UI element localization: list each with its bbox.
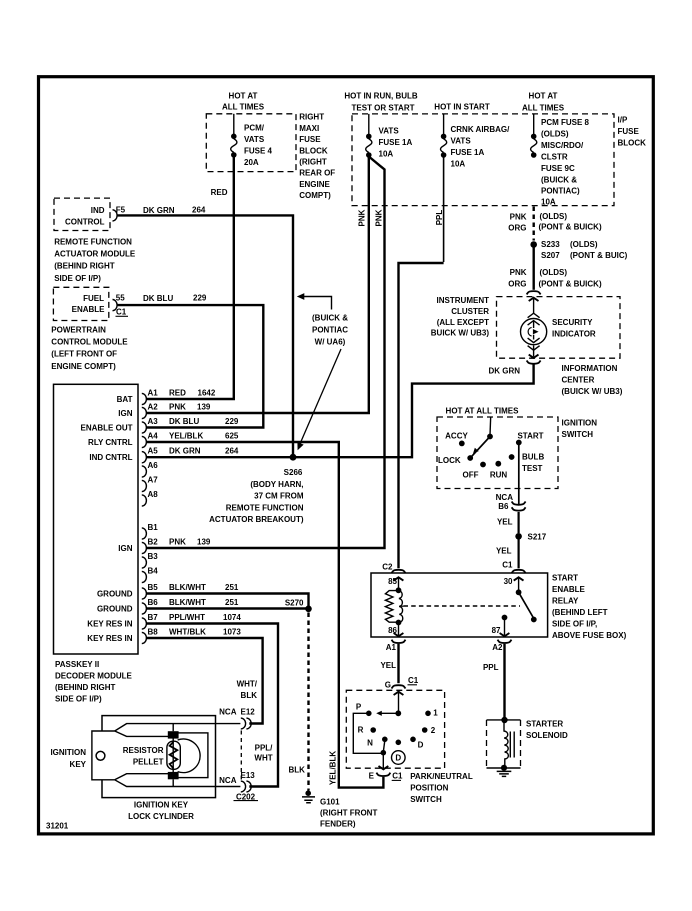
relay contact 87: [502, 615, 508, 621]
svg-text:A7: A7: [148, 476, 159, 485]
svg-text:A4: A4: [148, 432, 159, 441]
svg-text:TEST: TEST: [522, 464, 543, 473]
contact 2: [422, 727, 428, 733]
wire WHT/BLK B8 to E12: [147, 638, 263, 724]
svg-text:85: 85: [388, 577, 397, 586]
svg-text:251: 251: [225, 598, 239, 607]
pin A6: [142, 466, 147, 477]
svg-text:INSTRUMENT: INSTRUMENT: [437, 296, 490, 305]
svg-text:DECODER MODULE: DECODER MODULE: [55, 672, 133, 681]
ignition switch feed wire: [489, 417, 492, 436]
relay switch blade: [516, 589, 522, 595]
svg-text:B8: B8: [148, 628, 159, 637]
contact LOCK: [467, 455, 473, 461]
svg-text:RLY CNTRL: RLY CNTRL: [88, 438, 133, 447]
svg-text:ENGINE COMPT): ENGINE COMPT): [51, 362, 116, 371]
svg-text:YEL: YEL: [497, 518, 513, 527]
starter solenoid junction: [501, 717, 507, 723]
svg-text:BLK: BLK: [289, 765, 306, 774]
svg-text:INFORMATION: INFORMATION: [562, 364, 618, 373]
svg-text:(OLDS): (OLDS): [541, 130, 569, 139]
pin B5: [142, 588, 147, 599]
pin A2: [142, 407, 147, 418]
svg-text:251: 251: [225, 583, 239, 592]
svg-text:FENDER): FENDER): [320, 819, 356, 828]
svg-text:R: R: [358, 726, 364, 735]
svg-text:(BEHIND RIGHT: (BEHIND RIGHT: [55, 683, 116, 692]
svg-text:PELLET: PELLET: [133, 758, 164, 767]
svg-text:FUEL: FUEL: [83, 294, 104, 303]
ignition switch dashed box: [437, 417, 558, 489]
svg-text:(BEHIND LEFT: (BEHIND LEFT: [552, 608, 608, 617]
svg-text:264: 264: [225, 447, 239, 456]
pellet contact top: [168, 731, 179, 738]
svg-text:2: 2: [431, 726, 436, 735]
svg-text:SWITCH: SWITCH: [410, 795, 442, 804]
ground G101: [305, 790, 311, 796]
contact 1: [425, 711, 431, 717]
connector C202 dashed link: [240, 731, 242, 781]
key top contact track to E12: [115, 724, 241, 732]
svg-text:PCM/: PCM/: [244, 124, 265, 133]
PNP wire down to E: [382, 753, 384, 768]
svg-text:ENGINE: ENGINE: [299, 180, 330, 189]
svg-text:10A: 10A: [541, 198, 556, 207]
svg-text:FUSE 1A: FUSE 1A: [451, 148, 485, 157]
svg-text:B3: B3: [148, 552, 159, 561]
connector cup at cluster top: [527, 291, 541, 294]
fuse CRNK AIRBAG/VATS FUSE 1A 10A: [443, 114, 445, 134]
svg-text:PCM FUSE 8: PCM FUSE 8: [541, 118, 590, 127]
svg-text:E: E: [369, 772, 375, 781]
pin A3: [142, 422, 147, 433]
svg-text:IGNITION: IGNITION: [562, 419, 598, 428]
svg-text:1073: 1073: [223, 628, 241, 637]
svg-text:PNK: PNK: [510, 268, 527, 277]
svg-text:PNK: PNK: [169, 403, 186, 412]
instrument cluster dashed box: [497, 297, 621, 359]
pin B8: [142, 632, 147, 643]
wire PNK branch to B2: [147, 157, 385, 549]
PNP wire to P contact: [381, 712, 399, 714]
pin A5: [142, 452, 147, 463]
svg-text:IGNITION: IGNITION: [50, 748, 86, 757]
svg-text:A2: A2: [148, 403, 159, 412]
pin B3: [142, 557, 147, 568]
svg-text:BLOCK: BLOCK: [618, 138, 647, 147]
contact ACCY: [459, 441, 465, 447]
contact R: [370, 727, 376, 733]
pellet contact bottom: [168, 772, 179, 779]
svg-text:37 CM FROM: 37 CM FROM: [254, 492, 304, 501]
contact N: [382, 737, 388, 743]
svg-text:CONTROL MODULE: CONTROL MODULE: [51, 338, 128, 347]
wire BLK/WHT B6: [147, 607, 309, 609]
contact RUN: [495, 461, 501, 467]
splice S233/S207: [530, 241, 537, 248]
svg-text:LOCK: LOCK: [438, 456, 461, 465]
svg-text:BUICK W/ UB3): BUICK W/ UB3): [431, 329, 490, 338]
svg-text:A8: A8: [148, 490, 159, 499]
svg-text:SIDE OF I/P): SIDE OF I/P): [54, 274, 101, 283]
svg-text:POSITION: POSITION: [410, 784, 448, 793]
svg-text:KEY RES IN: KEY RES IN: [87, 620, 132, 629]
svg-text:HOT AT: HOT AT: [229, 91, 258, 100]
svg-text:YEL/BLK: YEL/BLK: [329, 751, 338, 785]
svg-text:IGN: IGN: [118, 409, 132, 418]
svg-text:139: 139: [197, 538, 211, 547]
svg-text:DK GRN: DK GRN: [143, 206, 175, 215]
key blade top edge: [115, 731, 168, 736]
svg-text:229: 229: [225, 417, 239, 426]
svg-text:REMOTE FUNCTION: REMOTE FUNCTION: [54, 237, 132, 246]
pin A4: [142, 436, 147, 447]
I/P fuse block dashed box: [352, 114, 614, 206]
svg-text:BLK/WHT: BLK/WHT: [169, 583, 206, 592]
svg-text:YEL: YEL: [380, 661, 396, 670]
splice S266: [290, 454, 297, 461]
splice S217: [515, 533, 522, 540]
svg-text:VATS: VATS: [379, 127, 400, 136]
svg-text:PNK: PNK: [169, 538, 186, 547]
svg-text:C1: C1: [502, 561, 513, 570]
svg-text:RED: RED: [169, 389, 186, 398]
connector E12: [241, 718, 251, 729]
svg-text:D: D: [418, 741, 424, 750]
svg-text:D: D: [395, 754, 401, 763]
svg-text:ENABLE: ENABLE: [72, 305, 106, 314]
starter solenoid dashed box: [487, 720, 521, 768]
svg-text:87: 87: [492, 626, 501, 635]
connector B6 cup: [512, 502, 526, 505]
svg-text:(OLDS): (OLDS): [540, 268, 568, 277]
svg-text:CENTER: CENTER: [562, 376, 595, 385]
wire START down: [518, 443, 520, 505]
connector cup relay C2: [392, 570, 406, 573]
fuse VATS FUSE 1A 10A: [368, 114, 370, 134]
svg-text:ACTUATOR MODULE: ACTUATOR MODULE: [54, 250, 136, 259]
svg-text:A1: A1: [148, 389, 159, 398]
svg-text:WHT: WHT: [254, 753, 272, 762]
svg-text:COMPT): COMPT): [299, 191, 331, 200]
svg-text:KEY: KEY: [70, 760, 87, 769]
svg-text:ACCY: ACCY: [445, 432, 468, 441]
svg-text:YEL: YEL: [496, 547, 512, 556]
svg-text:STARTER: STARTER: [526, 720, 563, 729]
pin B1: [142, 528, 147, 539]
PNP G arrow: [394, 692, 404, 695]
resistor pellet zigzag: [170, 742, 178, 768]
passkey II decoder module box: [54, 384, 139, 654]
svg-text:PNK: PNK: [510, 212, 527, 221]
svg-text:PARK/NEUTRAL: PARK/NEUTRAL: [410, 772, 473, 781]
svg-text:FUSE: FUSE: [299, 135, 321, 144]
svg-text:PNK: PNK: [375, 209, 384, 226]
svg-text:NCA: NCA: [219, 776, 237, 785]
svg-text:PPL: PPL: [483, 663, 499, 672]
pin hook 55 / C1: [113, 300, 118, 311]
svg-text:SOLENOID: SOLENOID: [526, 731, 568, 740]
resistor pellet outline: [167, 741, 180, 769]
svg-text:ENABLE OUT: ENABLE OUT: [81, 424, 133, 433]
svg-text:GROUND: GROUND: [97, 605, 133, 614]
connector cup relay A2: [498, 640, 512, 643]
svg-text:(OLDS): (OLDS): [540, 212, 568, 221]
svg-text:E12: E12: [241, 708, 256, 717]
key blade bottom edge: [115, 774, 168, 780]
wire BLK dashed to G101: [307, 613, 309, 791]
svg-text:229: 229: [193, 294, 207, 303]
svg-text:(BUICK &: (BUICK &: [312, 314, 348, 323]
svg-text:DK GRN: DK GRN: [488, 367, 520, 376]
svg-text:ACTUATOR BREAKOUT): ACTUATOR BREAKOUT): [209, 515, 304, 524]
svg-text:GROUND: GROUND: [97, 590, 133, 599]
svg-text:HOT IN START: HOT IN START: [434, 102, 490, 111]
IND CONTROL dashed box: [54, 198, 110, 230]
svg-text:PONTIAC): PONTIAC): [541, 187, 580, 196]
svg-text:1642: 1642: [198, 389, 216, 398]
relay terminal 30 arrow: [514, 577, 524, 580]
wire YEL/BLK A4 to PNP switch E: [147, 442, 384, 788]
pin hook F5: [113, 210, 118, 221]
svg-text:KEY RES IN: KEY RES IN: [87, 634, 132, 643]
svg-text:FUSE 1A: FUSE 1A: [379, 138, 413, 147]
svg-text:(RIGHT: (RIGHT: [299, 158, 327, 167]
wire PNK/ORG to cluster: [533, 248, 535, 290]
svg-text:WHT/: WHT/: [237, 680, 258, 689]
svg-text:SWITCH: SWITCH: [562, 430, 594, 439]
svg-text:IGN: IGN: [118, 544, 132, 553]
svg-text:B7: B7: [148, 613, 159, 622]
pin B7: [142, 618, 147, 629]
svg-text:(BEHIND RIGHT: (BEHIND RIGHT: [54, 262, 115, 271]
svg-text:WHT/BLK: WHT/BLK: [169, 628, 206, 637]
svg-text:BLK: BLK: [241, 691, 258, 700]
pin A1: [142, 393, 147, 404]
svg-text:ABOVE FUSE BOX): ABOVE FUSE BOX): [552, 631, 627, 640]
svg-text:OFF: OFF: [463, 471, 479, 480]
svg-text:55: 55: [116, 294, 125, 303]
relay terminal 85 arrow: [394, 577, 404, 580]
svg-text:(ALL EXCEPT: (ALL EXCEPT: [437, 318, 489, 327]
svg-text:(OLDS): (OLDS): [570, 240, 598, 249]
wire PPL from CRNK fuse: [443, 157, 445, 262]
svg-text:ENABLE: ENABLE: [552, 585, 586, 594]
svg-text:A5: A5: [148, 447, 159, 456]
svg-text:INDICATOR: INDICATOR: [552, 330, 596, 339]
fuse PCM FUSE 8 / FUSE 9C: [533, 114, 535, 134]
svg-text:F5: F5: [116, 206, 126, 215]
relay coil: [396, 587, 402, 593]
svg-text:B4: B4: [148, 567, 159, 576]
svg-text:A2: A2: [492, 643, 503, 652]
wire RED fuse4 to A1: [147, 157, 234, 399]
connector cup relay C1: [512, 570, 526, 573]
svg-text:B6: B6: [498, 502, 509, 511]
svg-text:PASSKEY II: PASSKEY II: [55, 660, 99, 669]
svg-text:DK BLU: DK BLU: [169, 417, 199, 426]
diagram border frame: [39, 77, 654, 834]
wire PNK fuse to A2: [147, 157, 369, 413]
svg-text:SIDE OF I/P): SIDE OF I/P): [55, 695, 102, 704]
svg-text:31201: 31201: [46, 822, 69, 831]
svg-text:CLUSTER: CLUSTER: [451, 307, 489, 316]
pin B6: [142, 603, 147, 614]
svg-text:BLOCK: BLOCK: [299, 146, 328, 155]
svg-text:NCA: NCA: [219, 708, 237, 717]
contact OFF: [480, 462, 486, 468]
wire N to E node: [384, 741, 385, 751]
svg-text:SIDE OF I/P,: SIDE OF I/P,: [552, 620, 597, 629]
svg-text:BAT: BAT: [117, 395, 133, 404]
svg-text:(PONT & BUIC): (PONT & BUIC): [570, 251, 628, 260]
ignition switch blade: [487, 434, 493, 440]
circled D indicator: [392, 751, 406, 765]
svg-text:139: 139: [197, 403, 211, 412]
svg-text:1: 1: [433, 709, 438, 718]
svg-text:RUN: RUN: [490, 471, 508, 480]
splice S270: [305, 606, 312, 613]
contact D: [410, 737, 416, 743]
svg-text:A1: A1: [386, 643, 397, 652]
svg-text:REAR OF: REAR OF: [299, 169, 335, 178]
solenoid ground: [501, 765, 507, 771]
ignition key lock cylinder box: [102, 716, 216, 798]
key bottom contact track to E13: [115, 779, 241, 786]
connector cup PNP G: [392, 685, 406, 688]
svg-text:ALL TIMES: ALL TIMES: [522, 103, 565, 112]
svg-text:PPL/: PPL/: [255, 744, 274, 753]
solenoid coil: [504, 720, 508, 768]
svg-text:YEL/BLK: YEL/BLK: [169, 432, 203, 441]
svg-text:LOCK CYLINDER: LOCK CYLINDER: [128, 812, 194, 821]
svg-text:C1: C1: [392, 771, 403, 780]
svg-text:(BUICK W/ UB3): (BUICK W/ UB3): [562, 387, 623, 396]
svg-text:VATS: VATS: [451, 137, 472, 146]
PNP wire P to E: [353, 713, 381, 753]
svg-text:RESISTOR: RESISTOR: [123, 746, 164, 755]
svg-text:START: START: [517, 432, 543, 441]
svg-text:C1: C1: [116, 308, 127, 317]
svg-text:C1: C1: [408, 676, 419, 685]
svg-text:S270: S270: [285, 599, 304, 608]
svg-text:I/P: I/P: [618, 115, 628, 124]
svg-text:W/ UA6): W/ UA6): [315, 337, 346, 346]
svg-text:PPL/WHT: PPL/WHT: [169, 613, 205, 622]
svg-text:HOT AT ALL TIMES: HOT AT ALL TIMES: [446, 407, 520, 416]
start enable relay box: [371, 573, 548, 637]
connector cup below cluster: [527, 361, 541, 364]
svg-text:20A: 20A: [244, 158, 259, 167]
svg-text:DK GRN: DK GRN: [169, 447, 201, 456]
svg-text:FUSE 4: FUSE 4: [244, 147, 273, 156]
svg-text:START: START: [552, 574, 578, 583]
svg-text:RED: RED: [211, 188, 228, 197]
svg-text:1074: 1074: [223, 613, 241, 622]
svg-text:HOT AT: HOT AT: [529, 91, 558, 100]
wire DK GRN 264 to S266: [118, 215, 294, 457]
svg-text:(RIGHT FRONT: (RIGHT FRONT: [320, 808, 377, 817]
svg-text:RIGHT: RIGHT: [299, 112, 324, 121]
svg-text:S233: S233: [541, 240, 560, 249]
PNP switch dashed box: [346, 690, 444, 768]
pellet housing arc: [178, 739, 201, 773]
svg-text:BULB: BULB: [522, 453, 544, 462]
svg-text:PPL: PPL: [435, 210, 444, 226]
svg-text:ALL TIMES: ALL TIMES: [222, 102, 265, 111]
svg-text:PNK: PNK: [358, 209, 367, 226]
svg-text:A3: A3: [148, 417, 159, 426]
pin A7: [142, 480, 147, 491]
svg-text:30: 30: [504, 577, 513, 586]
wire YEL to S217: [517, 512, 519, 533]
svg-text:(BUICK &: (BUICK &: [541, 176, 577, 185]
svg-text:E13: E13: [241, 771, 256, 780]
svg-text:G101: G101: [320, 797, 340, 806]
svg-text:(PONT & BUICK): (PONT & BUICK): [539, 279, 602, 288]
svg-text:PONTIAC: PONTIAC: [312, 326, 348, 335]
svg-text:POWERTRAIN: POWERTRAIN: [51, 325, 106, 334]
svg-text:DK BLU: DK BLU: [143, 294, 173, 303]
wire DK GRN indicator to A5 row: [147, 364, 534, 457]
svg-text:ORG: ORG: [508, 223, 526, 232]
svg-text:B1: B1: [148, 523, 159, 532]
PNP junction: [395, 710, 401, 716]
svg-text:B5: B5: [148, 583, 159, 592]
svg-text:VATS: VATS: [244, 135, 265, 144]
svg-text:10A: 10A: [379, 150, 394, 159]
svg-text:B2: B2: [148, 538, 159, 547]
svg-text:10A: 10A: [451, 160, 466, 169]
key hole: [96, 751, 105, 760]
contact P: [366, 711, 372, 717]
svg-text:N: N: [367, 739, 373, 748]
svg-text:TEST OR START: TEST OR START: [352, 103, 415, 112]
svg-text:MISC/RDO/: MISC/RDO/: [541, 141, 584, 150]
svg-text:ORG: ORG: [508, 279, 526, 288]
contact START: [516, 440, 522, 446]
svg-text:A6: A6: [148, 461, 159, 470]
svg-text:RELAY: RELAY: [552, 597, 579, 606]
pin B4: [142, 571, 147, 582]
wire PPL/WHT B7 to E13: [147, 624, 279, 787]
wire BLK/WHT B5: [147, 594, 309, 608]
svg-text:(PONT & BUICK): (PONT & BUICK): [539, 223, 602, 232]
relay mech dashed link: [404, 605, 521, 607]
wire YEL to relay C1: [517, 539, 519, 568]
svg-text:NCA: NCA: [496, 493, 514, 502]
connector E13: [241, 781, 251, 792]
svg-text:CRNK AIRBAG/: CRNK AIRBAG/: [451, 125, 511, 134]
wire PPL relay A2 to solenoid: [503, 644, 505, 720]
svg-text:CLSTR: CLSTR: [541, 153, 568, 162]
svg-text:BLK/WHT: BLK/WHT: [169, 598, 206, 607]
svg-text:625: 625: [225, 432, 239, 441]
svg-text:(LEFT FRONT OF: (LEFT FRONT OF: [51, 350, 117, 359]
pin B2: [142, 542, 147, 553]
svg-text:FUSE 9C: FUSE 9C: [541, 164, 575, 173]
svg-text:CONTROL: CONTROL: [65, 218, 105, 227]
wire PNK/ORG dashed (options): [533, 207, 535, 241]
right maxi fuse block dashed box: [206, 114, 296, 172]
pin A8: [142, 495, 147, 506]
arrow line to splice S266: [300, 349, 341, 444]
svg-text:C2: C2: [382, 563, 393, 572]
svg-text:IGNITION KEY: IGNITION KEY: [134, 801, 189, 810]
wire DK BLU 229 to A3: [118, 305, 264, 427]
svg-text:(BODY HARN,: (BODY HARN,: [250, 480, 303, 489]
svg-text:MAXI: MAXI: [299, 124, 319, 133]
